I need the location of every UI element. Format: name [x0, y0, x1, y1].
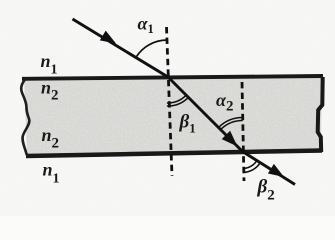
incident ray — [73, 19, 169, 77]
angle arc alpha1 — [136, 40, 167, 57]
exit ray arrowhead — [268, 164, 284, 177]
angle arc beta1 (double) — [167, 97, 189, 106]
slab left torn edge — [21, 79, 29, 155]
angle arc beta2 (double) — [243, 163, 260, 173]
slab speckle texture — [24, 76, 322, 156]
slab top surface — [22, 76, 323, 79]
refracted ray — [168, 77, 244, 153]
exit ray — [243, 152, 296, 185]
angle arc alpha2 (double) — [219, 117, 243, 127]
refracted ray arrowhead — [222, 131, 238, 147]
incident ray arrowhead — [100, 31, 116, 44]
slab n2 body fill — [24, 76, 322, 156]
slab bottom surface — [26, 151, 322, 157]
normal 2 (dashed) — [242, 82, 244, 181]
slab right torn edge — [318, 77, 323, 152]
normal 1 (dashed) — [167, 27, 173, 176]
